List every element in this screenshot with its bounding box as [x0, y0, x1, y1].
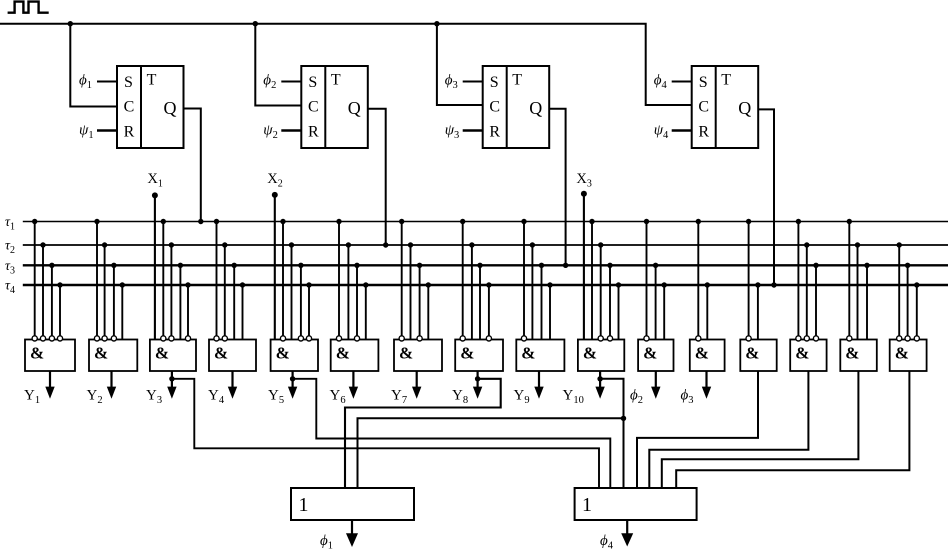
- wire tau2 tap to G3 at x=171.4: [170, 245, 172, 336]
- junction tau3 x=357.0: [354, 263, 359, 268]
- wire tau2 tap to G2 at x=104.6: [104, 245, 106, 336]
- junction tau4 x=309.0: [306, 282, 311, 287]
- svg-text:T: T: [721, 71, 731, 88]
- inverting bubble G14 input x=816.0: [813, 336, 818, 341]
- junction tau1 x=163.3: [161, 219, 166, 224]
- wire tau3 tap to G11 at x=655.6: [655, 265, 657, 339]
- inverting bubble G13 input x=748.6: [746, 336, 751, 341]
- wire tau1 tap to G2 at x=97.0: [96, 222, 98, 336]
- junction tau1 x=283.0: [280, 219, 285, 224]
- wire tau2 tap to G6 at x=348.4: [347, 245, 349, 340]
- junction tau3 x=610.0: [607, 263, 612, 268]
- junction Y10 branch to OR1: [621, 416, 626, 421]
- junction tau2 x=532.4: [530, 242, 535, 247]
- wire G14 output to OR2: [649, 371, 808, 488]
- svg-text:&: &: [795, 344, 809, 363]
- inverting bubble G16 input x=916.8: [914, 336, 919, 341]
- flip-flop FF2 (S C R / T Q): [301, 66, 368, 148]
- junction tau1 x=339.0: [336, 219, 341, 224]
- wire tau1 tap to G1 at x=34.7: [34, 222, 36, 336]
- inverting bubble G5 input x=300.9: [298, 336, 303, 341]
- svg-text:R: R: [308, 124, 319, 141]
- junction tau3 x=234.2: [232, 263, 237, 268]
- output arrow Y5: [288, 371, 297, 399]
- and-gate G5 (output Y5): [271, 340, 318, 372]
- junction clock to FF3: [434, 21, 439, 26]
- svg-text:&: &: [895, 344, 909, 363]
- inverting bubble G3 input x=163.3: [161, 336, 166, 341]
- node X1: [147, 171, 162, 340]
- inverting bubble G5 input x=309.0: [306, 336, 311, 341]
- junction tau2 x=171.4: [169, 242, 174, 247]
- junction tau4 x=618.5: [616, 282, 621, 287]
- junction tau1 x=462.7: [460, 219, 465, 224]
- junction clock to FF2: [253, 21, 258, 26]
- junction tau2 x=857.5: [855, 242, 860, 247]
- wire tau4 tap to G4 at x=242.5: [242, 285, 244, 340]
- wire tau4 tap to G12 at x=707.3: [706, 285, 708, 340]
- wire tau2 tap to G8 at x=471.9: [471, 245, 473, 340]
- junction tau2 x=899.2: [897, 242, 902, 247]
- junction tau1 x=798.4: [796, 219, 801, 224]
- junction tau2 x=224.8: [222, 242, 227, 247]
- junction tau3 x=51.9: [49, 263, 54, 268]
- junction Q4-tau4: [771, 282, 776, 287]
- wire tau3 tap to G9 at x=541.5: [541, 265, 543, 339]
- inverting bubble G1 input x=51.9: [49, 336, 54, 341]
- svg-text:Q: Q: [529, 98, 542, 118]
- inverting bubble G1 input x=60.0: [57, 336, 62, 341]
- junction Q1-tau1: [198, 219, 203, 224]
- node X2: [267, 171, 282, 340]
- wire tau1 tap to G6 at x=339.0: [338, 222, 340, 336]
- svg-text:&: &: [845, 344, 859, 363]
- node X3: [576, 171, 591, 340]
- svg-text:&: &: [155, 344, 169, 363]
- wire tau3 tap to G15 at x=867.0: [866, 265, 868, 339]
- junction tau3 x=541.5: [539, 263, 544, 268]
- junction tau2 x=104.6: [102, 242, 107, 247]
- output arrow Y4: [228, 371, 237, 399]
- output arrow Y9: [534, 371, 543, 399]
- svg-text:&: &: [30, 344, 44, 363]
- junction tau4 x=707.3: [705, 282, 710, 287]
- svg-text:S: S: [308, 74, 317, 91]
- wire tau3 tap to G16 at x=907.6: [907, 265, 909, 336]
- inverting bubble G14 input x=806.8: [804, 336, 809, 341]
- wire tau4 tap to G9 at x=550.0: [549, 285, 551, 340]
- wire Y10 to OR2: [600, 379, 623, 488]
- junction tau3 x=907.6: [905, 263, 910, 268]
- junction Q3-tau3: [563, 263, 568, 268]
- wire tau4 tap to G13 at x=757.9: [757, 285, 759, 340]
- junction tau4 x=365.8: [363, 282, 368, 287]
- inverting bubble G7 input x=401.7: [399, 336, 404, 341]
- svg-text:&: &: [695, 344, 709, 363]
- junction Y10 output branch: [597, 376, 602, 381]
- wire tau3 tap to G7 at x=419.6: [419, 265, 421, 336]
- flip-flop FF3 (S C R / T Q): [483, 66, 550, 148]
- wire tau1 tap to G4 at x=216.5: [216, 222, 218, 336]
- junction tau4 x=916.8: [914, 282, 919, 287]
- inverting bubble G9 input x=524.0: [521, 336, 526, 341]
- junction tau4 x=664.2: [662, 282, 667, 287]
- wire tau2 tap to G7 at x=410.5: [410, 245, 412, 340]
- junction Y8 output branch: [475, 376, 480, 381]
- wire clock to FF1 C: [70, 24, 117, 107]
- inverting bubble G1 input x=43.0: [40, 336, 45, 341]
- svg-text:T: T: [147, 71, 157, 88]
- wire tau1 tap to G11 at x=646.5: [646, 222, 648, 336]
- svg-text:C: C: [489, 99, 500, 116]
- junction tau3 x=480.0: [477, 263, 482, 268]
- wire tau3 tap to G3 at x=180.4: [179, 265, 181, 339]
- wire tau3 tap to G8 at x=480.0: [479, 265, 481, 339]
- inverting bubble G2 input x=113.9: [111, 336, 116, 341]
- junction tau3 x=655.6: [653, 263, 658, 268]
- wire tau3 tap to G1 at x=51.9: [51, 265, 53, 336]
- bus tau4: [23, 284, 948, 287]
- junction tau1 x=849.3: [847, 219, 852, 224]
- wire FF2 Q to tau2: [368, 109, 386, 245]
- wire tau2 tap to G1 at x=43.0: [42, 245, 44, 336]
- and-gate G1 (output Y1): [25, 340, 75, 372]
- and-gate G14: [790, 340, 826, 372]
- output arrow Y8: [473, 371, 482, 399]
- svg-text:1: 1: [582, 494, 592, 516]
- inverting bubble G2 input x=104.6: [102, 336, 107, 341]
- output arrow Y10: [595, 371, 604, 399]
- junction tau2 x=806.8: [804, 242, 809, 247]
- wire clock to FF2 C: [255, 24, 301, 106]
- and-gate G7 (output Y7): [394, 340, 442, 372]
- inverting bubble G14 input x=798.4: [796, 336, 801, 341]
- junction tau2 x=43.0: [40, 242, 45, 247]
- svg-text:C: C: [308, 99, 319, 116]
- svg-text:&: &: [276, 344, 290, 363]
- wire tau4 tap to G10 at x=618.5: [618, 285, 620, 340]
- and-gate G15: [840, 340, 877, 372]
- wire tau1 tap to G14 at x=798.4: [797, 222, 799, 336]
- inverting bubble G2 input x=97.0: [94, 336, 99, 341]
- wire G15 output to OR2: [662, 371, 859, 488]
- wire tau1 tap to G5 at x=283.0: [282, 222, 284, 336]
- junction tau2 x=600.7: [598, 242, 603, 247]
- inverting bubble G10 input x=610.0: [607, 336, 612, 341]
- bus tau3: [23, 264, 948, 266]
- inverting bubble G6 input x=339.0: [336, 336, 341, 341]
- wire tau2 tap to G14 at x=806.8: [806, 245, 808, 336]
- junction tau1 x=524.0: [521, 219, 526, 224]
- clock waveform symbol: [8, 2, 49, 13]
- and-gate G13: [740, 340, 776, 372]
- svg-text:&: &: [643, 344, 657, 363]
- wire FF4 Q to tau4: [758, 109, 774, 285]
- inverting bubble G10 input x=600.7: [598, 336, 603, 341]
- output arrow Y2: [107, 371, 116, 399]
- inverting bubble G16 input x=907.6: [905, 336, 910, 341]
- svg-text:&: &: [745, 344, 759, 363]
- svg-text:C: C: [698, 99, 709, 116]
- output arrow phi1: [346, 520, 358, 547]
- inverting bubble G8 input x=462.7: [460, 336, 465, 341]
- svg-text:Q: Q: [164, 98, 177, 118]
- wire FF3 Q to tau3: [549, 109, 565, 265]
- and-gate G3 (output Y3): [150, 340, 196, 372]
- junction tau4 x=488.9: [486, 282, 491, 287]
- input psi1 wire to R: [97, 129, 117, 132]
- inverting bubble G6 input x=357.0: [354, 336, 359, 341]
- wire Y5 to OR2: [293, 379, 611, 488]
- wire tau3 tap to G5 at x=300.9: [300, 265, 302, 336]
- wire G16 output to OR2: [676, 371, 909, 488]
- inverting bubble G8 input x=488.9: [486, 336, 491, 341]
- wire clock to FF3 C: [437, 24, 483, 105]
- junction tau3 x=180.4: [178, 263, 183, 268]
- wire tau3 tap to G4 at x=234.2: [233, 265, 235, 339]
- svg-text:S: S: [490, 74, 499, 91]
- wire Y10 to OR1: [358, 418, 624, 488]
- wire tau2 tap to G9 at x=532.4: [531, 245, 533, 340]
- wire tau1 tap to G13 at x=748.6: [748, 222, 750, 336]
- junction tau2 x=471.9: [469, 242, 474, 247]
- junction Q2-tau2: [383, 242, 388, 247]
- output arrow Y7: [412, 371, 421, 399]
- junction tau4 x=60.0: [57, 282, 62, 287]
- wire tau1 tap to G7 at x=401.7: [401, 222, 403, 336]
- svg-text:R: R: [489, 124, 500, 141]
- and-gate G12 (output phi3): [690, 340, 725, 372]
- inverting bubble G7 input x=419.6: [417, 336, 422, 341]
- junction clock to FF1: [68, 21, 73, 26]
- wire tau4 tap to G6 at x=365.8: [365, 285, 367, 340]
- output arrow phi3: [702, 371, 711, 399]
- inverting bubble G1 input x=34.7: [32, 336, 37, 341]
- bus tau2: [23, 244, 948, 246]
- wire tau4 tap to G3 at x=188.0: [187, 285, 189, 336]
- output arrow Y3: [167, 371, 176, 399]
- and-gate G16: [890, 340, 927, 372]
- svg-text:T: T: [331, 71, 341, 88]
- and-gate G2 (output Y2): [89, 340, 137, 372]
- svg-text:&: &: [94, 344, 108, 363]
- junction tau1 x=646.5: [644, 219, 649, 224]
- input phi1 wire to S: [97, 81, 117, 83]
- svg-text:&: &: [521, 344, 535, 363]
- wire tau1 tap to G8 at x=462.7: [462, 222, 464, 336]
- junction tau2 x=291.5: [289, 242, 294, 247]
- inverting bubble G4 input x=216.5: [214, 336, 219, 341]
- and-gate G4 (output Y4): [209, 340, 256, 372]
- wire tau2 tap to G5 at x=291.5: [291, 245, 293, 340]
- wire tau4 tap to G2 at x=122.3: [121, 285, 123, 340]
- junction tau1 x=401.7: [399, 219, 404, 224]
- junction tau4 x=428.3: [426, 282, 431, 287]
- junction tau3 x=867.0: [864, 263, 869, 268]
- junction tau1 x=698.3: [696, 219, 701, 224]
- wire clock bus: [0, 24, 692, 105]
- junction Y3 output branch: [169, 376, 174, 381]
- input psi3 wire to R: [463, 129, 483, 132]
- junction tau1 x=97.0: [94, 219, 99, 224]
- output arrow Y1: [45, 371, 54, 399]
- junction tau1 x=592.0: [589, 219, 594, 224]
- flip-flop FF4 (S C R / T Q): [692, 66, 759, 148]
- wire tau4 tap to G5 at x=309.0: [308, 285, 310, 336]
- wire tau1 tap to G3 at x=163.3: [162, 222, 164, 336]
- svg-text:S: S: [124, 74, 133, 91]
- svg-text:Q: Q: [738, 98, 751, 118]
- inverting bubble G12 input x=698.3: [696, 336, 701, 341]
- wire tau2 tap to G4 at x=224.8: [224, 245, 226, 336]
- input phi2 wire to S: [281, 81, 301, 83]
- junction tau3 x=113.9: [111, 263, 116, 268]
- inverting bubble G5 input x=283.0: [280, 336, 285, 341]
- wire tau3 tap to G10 at x=610.0: [609, 265, 611, 336]
- and-gate G10 (output Y10): [578, 340, 624, 372]
- svg-text:R: R: [698, 124, 709, 141]
- junction tau3 x=300.9: [298, 263, 303, 268]
- output arrow phi2: [651, 371, 660, 399]
- junction tau4 x=242.5: [240, 282, 245, 287]
- inverting bubble G3 input x=171.4: [169, 336, 174, 341]
- input phi4 wire to S: [672, 81, 692, 83]
- inverting bubble G4 input x=224.8: [222, 336, 227, 341]
- and-gate G9 (output Y9): [516, 340, 564, 372]
- wire tau2 tap to G10 at x=600.7: [600, 245, 602, 336]
- junction tau1 x=748.6: [746, 219, 751, 224]
- wire tau4 tap to G11 at x=664.2: [663, 285, 665, 340]
- svg-text:R: R: [124, 124, 135, 141]
- junction tau2 x=410.5: [408, 242, 413, 247]
- svg-text:&: &: [336, 344, 350, 363]
- wire Y8 to OR1: [345, 379, 501, 488]
- junction tau1 x=34.7: [32, 219, 37, 224]
- svg-text:Q: Q: [348, 98, 361, 118]
- svg-text:C: C: [124, 99, 135, 116]
- or-gate U2 (phi4): [575, 488, 697, 520]
- input phi3 wire to S: [463, 81, 483, 83]
- wire Y3 to OR2: [172, 379, 599, 488]
- wire tau2 tap to G16 at x=899.2: [898, 245, 900, 336]
- wire tau3 tap to G14 at x=816.0: [815, 265, 817, 336]
- svg-text:&: &: [460, 344, 474, 363]
- junction Y5 output branch: [290, 376, 295, 381]
- svg-text:&: &: [214, 344, 228, 363]
- junction tau3 x=816.0: [813, 263, 818, 268]
- wire tau4 tap to G16 at x=916.8: [916, 285, 918, 336]
- junction tau3 x=419.6: [417, 263, 422, 268]
- wire G13 output to OR2: [637, 371, 758, 488]
- and-gate G8 (output Y8): [455, 340, 503, 372]
- and-gate G11 (output phi2): [638, 340, 673, 372]
- wire tau4 tap to G8 at x=488.9: [488, 285, 490, 336]
- and-gate G6 (output Y6): [331, 340, 379, 372]
- wire FF1 Q to tau1: [184, 109, 201, 222]
- output arrow phi4: [621, 520, 633, 547]
- wire tau1 tap to G10 at x=592.0: [591, 222, 593, 340]
- wire tau1 tap to G15 at x=849.3: [848, 222, 850, 336]
- wire tau3 tap to G2 at x=113.9: [113, 265, 115, 336]
- junction tau4 x=122.3: [120, 282, 125, 287]
- junction tau4 x=188.0: [185, 282, 190, 287]
- or-gate U1 (phi1): [291, 488, 414, 520]
- junction tau2 x=348.4: [346, 242, 351, 247]
- svg-text:1: 1: [299, 494, 309, 516]
- svg-text:&: &: [583, 344, 597, 363]
- inverting bubble G11 input x=646.5: [644, 336, 649, 341]
- input psi4 wire to R: [672, 129, 692, 132]
- junction tau4 x=757.9: [755, 282, 760, 287]
- junction tau1 x=216.5: [214, 219, 219, 224]
- wire tau3 tap to G6 at x=357.0: [356, 265, 358, 336]
- wire tau1 tap to G9 at x=524.0: [523, 222, 525, 336]
- wire tau1 tap to G12 at x=698.3: [697, 222, 699, 336]
- junction tau4 x=550.0: [547, 282, 552, 287]
- output arrow Y6: [349, 371, 358, 399]
- wire tau4 tap to G7 at x=428.3: [427, 285, 429, 340]
- inverting bubble G3 input x=188.0: [185, 336, 190, 341]
- svg-text:S: S: [699, 74, 708, 91]
- input psi2 wire to R: [281, 129, 301, 132]
- flip-flop FF1 (S C R / T Q): [117, 66, 184, 148]
- svg-text:T: T: [512, 71, 522, 88]
- bus tau1: [23, 221, 948, 223]
- svg-text:&: &: [399, 344, 413, 363]
- inverting bubble G16 input x=899.2: [897, 336, 902, 341]
- wire tau4 tap to G1 at x=60.0: [59, 285, 61, 336]
- inverting bubble G15 input x=849.3: [847, 336, 852, 341]
- wire tau2 tap to G15 at x=857.5: [857, 245, 859, 340]
